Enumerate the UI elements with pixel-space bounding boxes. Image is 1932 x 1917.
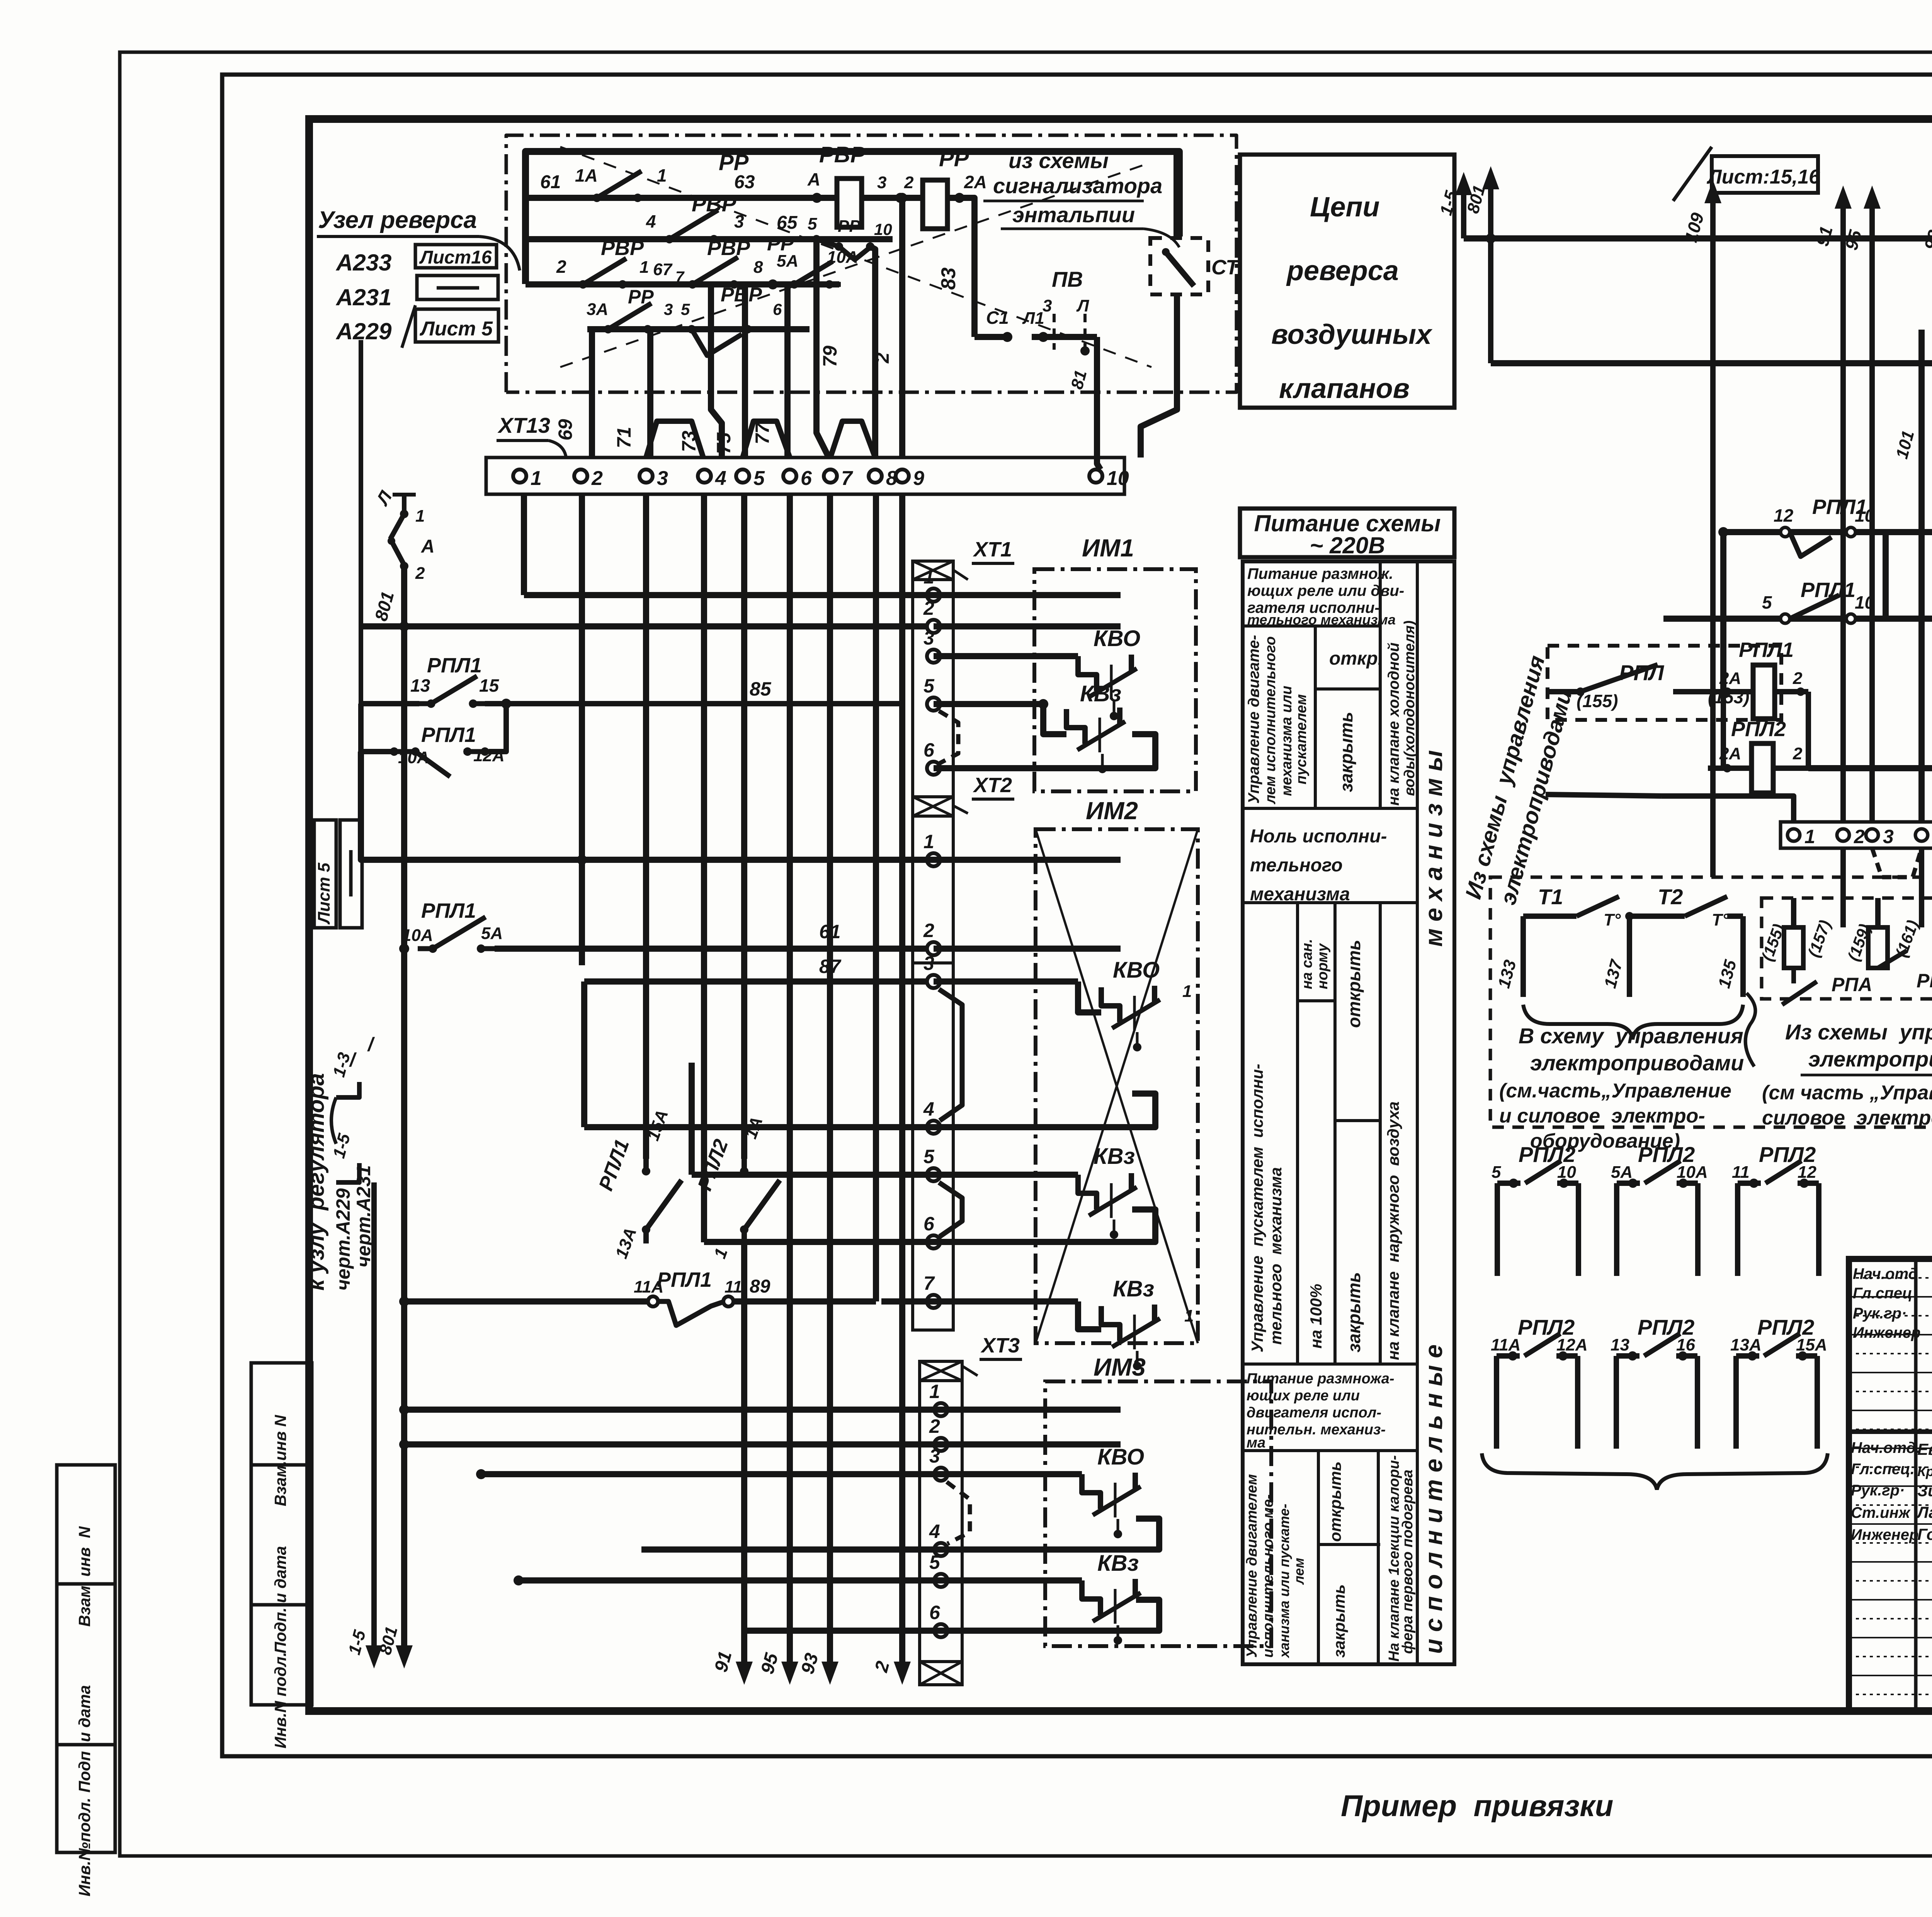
cell откр.: [1315, 687, 1380, 691]
wire XT3-5 (КВз row): [519, 1577, 1082, 1584]
svg-text:10А: 10А: [402, 926, 433, 945]
vertical wire 95 from XT13-6: [787, 494, 793, 1661]
svg-text:КВз: КВз: [1094, 1144, 1135, 1169]
box Цепи реверса воздушных клапанов: [1240, 155, 1454, 408]
svg-text:силовое электрооборудование): силовое электрооборудование): [1762, 1107, 1932, 1129]
svg-text:Инв.N подл.: Инв.N подл.: [271, 1652, 289, 1749]
svg-text:69: 69: [554, 419, 576, 441]
XT2 terminal 2: [927, 942, 940, 955]
svg-text:7: 7: [923, 1272, 935, 1294]
svg-text:РПЛ2: РПЛ2: [1731, 718, 1786, 741]
reference box Лист 5: [415, 309, 498, 342]
svg-text:1: 1: [1184, 1306, 1194, 1325]
svg-text:10: 10: [1107, 467, 1129, 490]
svg-text:лем: лем: [1291, 1558, 1307, 1585]
svg-text:РВР: РВР: [601, 236, 644, 260]
terminal strip 1-6 (protection node): [1781, 822, 1932, 848]
XT3 terminal 5: [934, 1574, 947, 1587]
svg-text:83: 83: [937, 267, 960, 290]
jumper XT2 3-4: [939, 989, 962, 1121]
svg-text:лем исполнительного: лем исполнительного: [1262, 636, 1279, 805]
svg-text:15: 15: [479, 675, 500, 696]
svg-text:Нач.отд: Нач.отд: [1853, 1266, 1918, 1283]
svg-text:9: 9: [913, 467, 924, 490]
svg-text:Питание размножа-: Питание размножа-: [1247, 1371, 1395, 1387]
svg-text:2: 2: [923, 920, 934, 941]
switch СТ dashed box: [1150, 238, 1208, 294]
svg-text:5А: 5А: [1611, 1163, 1633, 1182]
svg-text:ХТ2: ХТ2: [973, 774, 1012, 797]
XT2 terminal 5: [927, 1168, 940, 1181]
svg-text:5: 5: [923, 675, 935, 697]
svg-text:10: 10: [1855, 592, 1875, 612]
left vertical bus 801: [401, 566, 407, 1642]
main drawing thick frame: [309, 119, 1932, 1711]
wire XT3-4: [641, 1546, 941, 1553]
svg-text:А231: А231: [335, 284, 391, 310]
svg-text:6: 6: [801, 467, 812, 490]
svg-text:Т1: Т1: [1538, 885, 1563, 909]
dashed jumpers below strip: [1872, 848, 1922, 877]
svg-text:3: 3: [923, 953, 934, 974]
svg-text:2: 2: [871, 352, 893, 364]
svg-text:тельного механизма: тельного механизма: [1267, 1167, 1285, 1345]
svg-text:Гл.спец: Гл.спец: [1853, 1285, 1912, 1302]
svg-text:1: 1: [1804, 826, 1815, 847]
svg-text:11: 11: [1732, 1163, 1750, 1182]
vertical wire from XT13-3: [643, 494, 649, 1159]
wire XT3-1: [404, 1407, 1121, 1413]
drop wire from РР-10 to XT13-8: [870, 247, 875, 458]
vertical drop wire 69: [589, 329, 595, 458]
svg-text:В схему управления: В схему управления: [1519, 1024, 1743, 1048]
svg-text:исполнительного ме-: исполнительного ме-: [1260, 1494, 1276, 1658]
limit switch КВз (ИМ2): [1078, 1175, 1097, 1209]
vertical wire 93 from XT13-7: [827, 494, 833, 1661]
svg-text:1А: 1А: [575, 165, 598, 185]
wire XT1-2 into ИМ1: [934, 623, 1121, 629]
svg-text:1: 1: [923, 566, 934, 588]
svg-text:Нач.отд.: Нач.отд.: [1851, 1439, 1920, 1456]
left margin stamp column (outer): [57, 1465, 115, 1852]
svg-text:Красташевский: Красташевский: [1917, 1463, 1932, 1479]
svg-text:6: 6: [929, 1602, 940, 1623]
svg-text:13А: 13А: [1730, 1335, 1762, 1354]
svg-text:2: 2: [556, 257, 566, 277]
svg-text:89: 89: [750, 1276, 770, 1297]
svg-text:к узлу регулятора: к узлу регулятора: [304, 1073, 329, 1291]
svg-text:13: 13: [410, 675, 430, 696]
bus континует to XT5-5: [1886, 616, 1932, 622]
svg-text:10: 10: [1855, 505, 1875, 526]
svg-text:Т2: Т2: [1658, 885, 1683, 909]
svg-text:11: 11: [724, 1277, 742, 1296]
wire to С1: [975, 334, 1005, 340]
svg-text:75: 75: [713, 432, 735, 454]
svg-text:Рук.гр·: Рук.гр·: [1853, 1305, 1906, 1322]
svg-text:5А: 5А: [481, 924, 503, 943]
bottom arrow 2: [899, 1642, 905, 1673]
svg-text:РР: РР: [767, 233, 794, 255]
arrow 95 (right): [1869, 197, 1875, 822]
rung 1 wire 61-63: [526, 195, 837, 201]
svg-text:3: 3: [1883, 826, 1894, 847]
svg-text:пускателем: пускателем: [1293, 694, 1310, 784]
svg-text:1: 1: [923, 831, 934, 852]
svg-text:норму: норму: [1315, 943, 1331, 989]
svg-text:КВз: КВз: [1097, 1551, 1139, 1576]
XT13 terminal 8: [869, 469, 882, 483]
svg-text:А: А: [807, 169, 820, 189]
contact РВР 5-6: [692, 329, 742, 356]
bus y940 to XT4-5: [1491, 360, 1932, 366]
svg-text:12: 12: [1774, 505, 1794, 526]
XT13 terminal 7: [824, 469, 837, 483]
svg-text:2: 2: [923, 597, 934, 619]
limit switch КВО (ИМ3): [1082, 1474, 1100, 1509]
svg-text:КВО: КВО: [1097, 1444, 1144, 1470]
svg-text:Инженер: Инженер: [1851, 1526, 1918, 1543]
wire XT2-5 (КВз row): [692, 1172, 1078, 1178]
svg-text:10: 10: [1557, 1163, 1576, 1182]
svg-text:м е х а н и з м ы: м е х а н и з м ы: [1420, 750, 1447, 947]
limit switch КВз (ИМ1): [1043, 704, 1066, 734]
svg-text:Л: Л: [1076, 296, 1089, 315]
contact РР 5А-10А: [768, 279, 778, 289]
svg-text:Ноль исполни-: Ноль исполни-: [1250, 826, 1387, 847]
svg-text:Л1: Л1: [1022, 309, 1044, 328]
svg-text:12А: 12А: [1556, 1335, 1588, 1354]
svg-text:КВО: КВО: [1113, 958, 1160, 983]
svg-text:79: 79: [819, 345, 841, 367]
wire XT1-3 into ИМ1 (КВО row): [934, 653, 1078, 659]
svg-text:6: 6: [923, 739, 935, 761]
XT1 terminal 1: [927, 589, 940, 602]
contact РПЛ1 10А-12А loop: [361, 704, 394, 752]
svg-text:на клапане наружного воздуха: на клапане наружного воздуха: [1384, 1101, 1402, 1360]
contact РВР 4-3: [655, 237, 669, 242]
XT3 terminal 6: [934, 1624, 947, 1637]
svg-text:фера первого подогрева: фера первого подогрева: [1400, 1470, 1416, 1654]
svg-text:ХТ13: ХТ13: [497, 413, 550, 437]
jumper loops between XT13 terminals: [646, 421, 703, 458]
vertical wire from XT13-4 (77): [701, 494, 707, 1242]
svg-text:13: 13: [1611, 1335, 1629, 1354]
wire XT1-5 into ИМ1 (КВз row): [934, 701, 1043, 707]
svg-text:РР: РР: [838, 217, 861, 236]
svg-text:РВР: РВР: [707, 236, 750, 260]
svg-text:3: 3: [664, 300, 673, 318]
svg-text:1: 1: [657, 165, 667, 185]
bus wire top: [526, 151, 1179, 284]
rotated box dash (left): [340, 820, 362, 928]
row Управление пускателем section: [1243, 901, 1417, 904]
XT2 terminal 1: [927, 853, 940, 866]
svg-text:РР: РР: [719, 150, 749, 175]
svg-text:3А: 3А: [587, 300, 608, 319]
svg-text:из схемы: из схемы: [1009, 148, 1109, 173]
dashed box Узел защиты: [1490, 877, 1932, 1127]
svg-text:Цепи: Цепи: [1310, 192, 1380, 223]
svg-text:РВР: РВР: [819, 142, 866, 167]
XT1 terminal 5: [927, 697, 940, 711]
rung 89 with РПЛ1 11А-11: [404, 1298, 649, 1305]
svg-text:(см часть „Управление и: (см часть „Управление и: [1762, 1082, 1932, 1104]
svg-text:электроприводами: электроприводами: [1808, 1047, 1932, 1071]
svg-text:6: 6: [773, 300, 782, 318]
vertical drop wire 2: [899, 198, 905, 458]
svg-text:2: 2: [415, 564, 425, 583]
svg-text:ХТ3: ХТ3: [980, 1334, 1020, 1357]
cell на сан норму: [1298, 999, 1335, 1002]
svg-text:тельного механизма: тельного механизма: [1247, 612, 1396, 628]
sheet second border: [222, 75, 1932, 1756]
strip terminal 3: [1866, 829, 1878, 841]
svg-text:Рук.гр·: Рук.гр·: [1851, 1482, 1905, 1499]
jumper XT1 5-6 dashed: [939, 711, 958, 763]
contact РР 3А-3: [595, 327, 608, 332]
XT13 terminal 4: [698, 469, 711, 483]
vertical drop wire 73: [711, 284, 722, 458]
rotated box Лист 5 (left): [314, 820, 336, 928]
svg-text:ханизма или пускате-: ханизма или пускате-: [1276, 1504, 1292, 1658]
limit switch КВз1 (ИМ2): [1078, 1301, 1101, 1329]
svg-text:5: 5: [1762, 592, 1772, 612]
svg-text:3: 3: [923, 627, 934, 649]
svg-text:4: 4: [646, 211, 656, 231]
svg-text:11А: 11А: [1491, 1335, 1520, 1354]
svg-text:РПЛ1: РПЛ1: [427, 654, 482, 677]
svg-text:5: 5: [923, 1146, 935, 1167]
wire XT1-6 loop in ИМ1: [934, 734, 1155, 768]
svg-text:на клапане холодной: на клапане холодной: [1385, 643, 1402, 806]
svg-text:и с п о л н и т е л ь н ы е: и с п о л н и т е л ь н ы е: [1420, 1344, 1447, 1654]
svg-text:Подп и дата: Подп и дата: [75, 1685, 94, 1793]
svg-text:Инженер: Инженер: [1853, 1324, 1920, 1341]
svg-text:4: 4: [923, 1098, 934, 1120]
vertical wire from XT13-8: [873, 494, 879, 1301]
svg-text:тельного: тельного: [1250, 855, 1343, 876]
svg-text:Подп. и дата: Подп. и дата: [271, 1546, 289, 1653]
horizontal bus from А to XT1 row2: [361, 623, 934, 629]
jumper XT3 3-4 dashed: [947, 1482, 970, 1544]
title block signature columns: [1914, 1259, 1918, 1712]
svg-text:Взам инв N: Взам инв N: [75, 1526, 94, 1627]
svg-text:5: 5: [753, 467, 765, 490]
svg-text:Лист 5: Лист 5: [315, 862, 333, 925]
XT2 terminal 3: [927, 975, 940, 988]
svg-text:2: 2: [904, 173, 914, 192]
XT3 terminal 4: [934, 1543, 947, 1556]
wire XT2-4 into ИМ2: [584, 1124, 1078, 1130]
contact РПЛ1 12-10 (upper): [1723, 529, 1932, 535]
svg-text:~ 220В: ~ 220В: [1310, 532, 1385, 558]
svg-text:нительн. механиз-: нительн. механиз-: [1247, 1422, 1386, 1438]
svg-text:3: 3: [877, 173, 886, 192]
svg-text:2: 2: [1793, 744, 1803, 763]
box Питание схемы ~220В: [1240, 509, 1454, 557]
svg-text:Инв.№подл.: Инв.№подл.: [75, 1798, 94, 1897]
limit switch КВО (ИМ1): [1078, 656, 1097, 691]
svg-text:на 100%: на 100%: [1307, 1284, 1325, 1349]
vertical drop wire 71: [647, 329, 653, 458]
svg-text:85: 85: [750, 678, 772, 700]
contact РПЛ1 5-10 (lower): [1663, 616, 1886, 622]
wire from СТ down to strip: [1173, 151, 1180, 240]
svg-text:закрыть: закрыть: [1344, 1272, 1364, 1352]
svg-text:Гл.спец.: Гл.спец.: [1851, 1461, 1915, 1478]
svg-text:энтальпии: энтальпии: [1012, 202, 1135, 227]
wire XT2-3 into ИМ2 (КВО1 row): [934, 978, 1078, 985]
svg-text:Из схемы управления: Из схемы управления: [1785, 1020, 1932, 1044]
svg-text:Управление пускателем исполн: Управление пускателем исполни-: [1248, 1064, 1266, 1352]
XT3 terminal 1: [934, 1403, 947, 1416]
svg-text:3: 3: [1043, 296, 1052, 315]
wire XT3-2 long bus: [404, 1441, 1121, 1448]
svg-text:61: 61: [540, 172, 561, 192]
XT1 terminal 2: [927, 620, 940, 633]
XT13 terminal 10: [1089, 469, 1102, 483]
limit switch КВО1 (ИМ2): [1078, 981, 1101, 1012]
vertical drop wire 75: [742, 284, 748, 458]
bus y617 to XT4: [1464, 235, 1932, 242]
svg-text:Лист16: Лист16: [419, 247, 492, 268]
svg-text:РПЛ1: РПЛ1: [421, 899, 476, 922]
relay coil РР (slave): [923, 180, 947, 229]
cell открыть (2): [1318, 1543, 1380, 1546]
svg-text:8: 8: [753, 258, 763, 277]
jumper XT2 5-6: [939, 1182, 962, 1237]
svg-text:2: 2: [591, 467, 603, 490]
wire XT1-1 into ИМ1: [524, 592, 1121, 598]
XT13 terminal 3: [639, 469, 653, 483]
wire XT2-7 (КВз1 row): [881, 1298, 1078, 1305]
svg-text:63: 63: [734, 172, 755, 192]
svg-text:А233: А233: [335, 250, 391, 276]
brace В схему: [1523, 1005, 1743, 1039]
svg-text:4: 4: [715, 467, 726, 490]
bottom arrow 91: [741, 1642, 747, 1673]
cell Управление двигателем (rot): [1314, 626, 1317, 808]
svg-text:А229: А229: [335, 318, 392, 344]
label Лист:15,16 box: [1673, 147, 1712, 201]
wire XT2-1 into ИМ2: [361, 752, 934, 860]
svg-text:откр.: откр.: [1329, 648, 1383, 669]
svg-text:71: 71: [613, 427, 635, 448]
svg-text:С1: С1: [986, 308, 1009, 328]
svg-text:5: 5: [1492, 1163, 1501, 1182]
vertical wire 91 from XT13-5: [741, 494, 747, 1159]
svg-text:2: 2: [929, 1415, 940, 1437]
svg-text:РПА: РПА: [1832, 974, 1872, 995]
XT13 terminal 5: [736, 469, 749, 483]
rung 2 wire 65: [526, 236, 893, 242]
XT13 terminal 2: [574, 469, 587, 483]
svg-text:РПЛ1: РПЛ1: [421, 723, 476, 747]
svg-text:Зингерман: Зингерман: [1917, 1482, 1932, 1500]
top feeder arrows 1-5 and 801 (right): [1461, 184, 1466, 238]
strip wires down into protection box: [1840, 848, 1846, 927]
vertical drop wire 79: [816, 239, 829, 458]
svg-text:А: А: [421, 536, 435, 557]
svg-text:Управление двигате-: Управление двигате-: [1245, 635, 1262, 804]
svg-text:закрыть: закрыть: [1336, 712, 1356, 792]
wire 83 from 2А down: [950, 198, 975, 337]
svg-text:Узел реверса: Узел реверса: [318, 207, 477, 233]
svg-text:РПА: РПА: [1917, 970, 1932, 992]
reference box (dash): [417, 276, 498, 299]
svg-text:механизма или: механизма или: [1279, 686, 1295, 796]
svg-text:Горшенина: Горшенина: [1917, 1525, 1932, 1543]
svg-text:7: 7: [841, 467, 853, 490]
svg-text:12А: 12А: [473, 746, 505, 765]
XT3 terminal 3: [934, 1468, 947, 1481]
bottom arrow 95: [787, 1642, 793, 1673]
bus from РПЛ2 row to right: [1808, 765, 1932, 771]
left margin stamp column (inner): [251, 1363, 312, 1705]
svg-text:закрыть: закрыть: [1330, 1584, 1348, 1658]
XT2 terminal 6: [927, 1235, 940, 1249]
wire XT2-2 into ИМ2: [934, 946, 1121, 952]
diagonal crease lines: [560, 147, 1151, 367]
contact РВР 7-8: [679, 282, 692, 287]
svg-text:сигнализатора: сигнализатора: [993, 173, 1162, 198]
svg-text:КВз: КВз: [1113, 1276, 1154, 1301]
bottom arrow 93: [827, 1642, 833, 1673]
svg-text:воздушных: воздушных: [1271, 319, 1433, 350]
brace under РПЛ2 group: [1482, 1453, 1828, 1490]
dashed box РПА coils: [1762, 898, 1932, 999]
svg-text:Управление двигателем: Управление двигателем: [1244, 1474, 1260, 1658]
wire XT3-3 (КВО row): [481, 1471, 1082, 1477]
svg-text:10: 10: [874, 220, 892, 238]
strip terminal 1: [1787, 829, 1800, 841]
svg-text:черт.А229: черт.А229: [332, 1188, 354, 1291]
svg-text:65: 65: [777, 213, 798, 233]
relay coil РВР (slave): [837, 179, 862, 227]
reference box Лист 16: [415, 245, 497, 268]
loop КВО lower (ИМ3): [941, 1519, 1159, 1550]
svg-text:ющих реле или дви-: ющих реле или дви-: [1247, 582, 1404, 599]
vertical 101: [1918, 330, 1925, 822]
vertical wire 2 from XT13-9: [899, 494, 905, 1661]
svg-text:Взам.инв N: Взам.инв N: [271, 1414, 289, 1506]
svg-text:1: 1: [415, 507, 425, 526]
svg-text:15А: 15А: [1796, 1335, 1827, 1354]
svg-text:12: 12: [1798, 1163, 1816, 1182]
svg-text:5: 5: [808, 214, 817, 233]
vertical drop wire 77: [784, 284, 791, 458]
svg-text:открыть: открыть: [1344, 940, 1364, 1028]
wire Л1 to ПВ corner: [1032, 334, 1097, 340]
arrow 109: [1710, 192, 1716, 877]
svg-text:двигателя испол-: двигателя испол-: [1247, 1405, 1381, 1421]
arrow 91 (right): [1840, 197, 1846, 822]
rung 4 wire 3А-3-5-6: [587, 326, 810, 332]
svg-text:КВО: КВО: [1094, 626, 1140, 651]
strip terminal 4: [1915, 829, 1928, 841]
svg-text:РВР: РВР: [721, 284, 762, 306]
svg-text:1: 1: [639, 258, 649, 277]
svg-text:клапанов: клапанов: [1279, 373, 1410, 404]
svg-text:3: 3: [929, 1445, 940, 1467]
svg-text:на сан.: на сан.: [1299, 939, 1315, 989]
svg-text:2: 2: [1793, 669, 1803, 688]
svg-text:открыть: открыть: [1326, 1461, 1344, 1542]
svg-text:Лист:15,16: Лист:15,16: [1706, 166, 1820, 188]
contact РР 2-1: [570, 282, 583, 287]
svg-text:Евтушенко: Евтушенко: [1917, 1440, 1932, 1458]
